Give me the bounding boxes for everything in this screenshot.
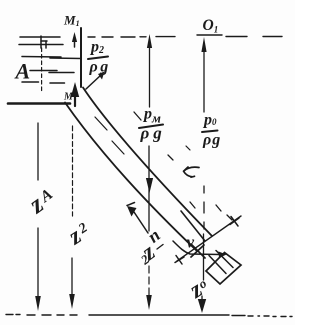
- svg-text:ρg: ρg: [140, 124, 166, 143]
- svg-text:M: M: [63, 92, 74, 103]
- svg-text:v: v: [187, 233, 195, 252]
- svg-text:ρg: ρg: [89, 59, 111, 76]
- svg-text:ρg: ρg: [202, 132, 221, 149]
- svg-text:A: A: [14, 59, 31, 84]
